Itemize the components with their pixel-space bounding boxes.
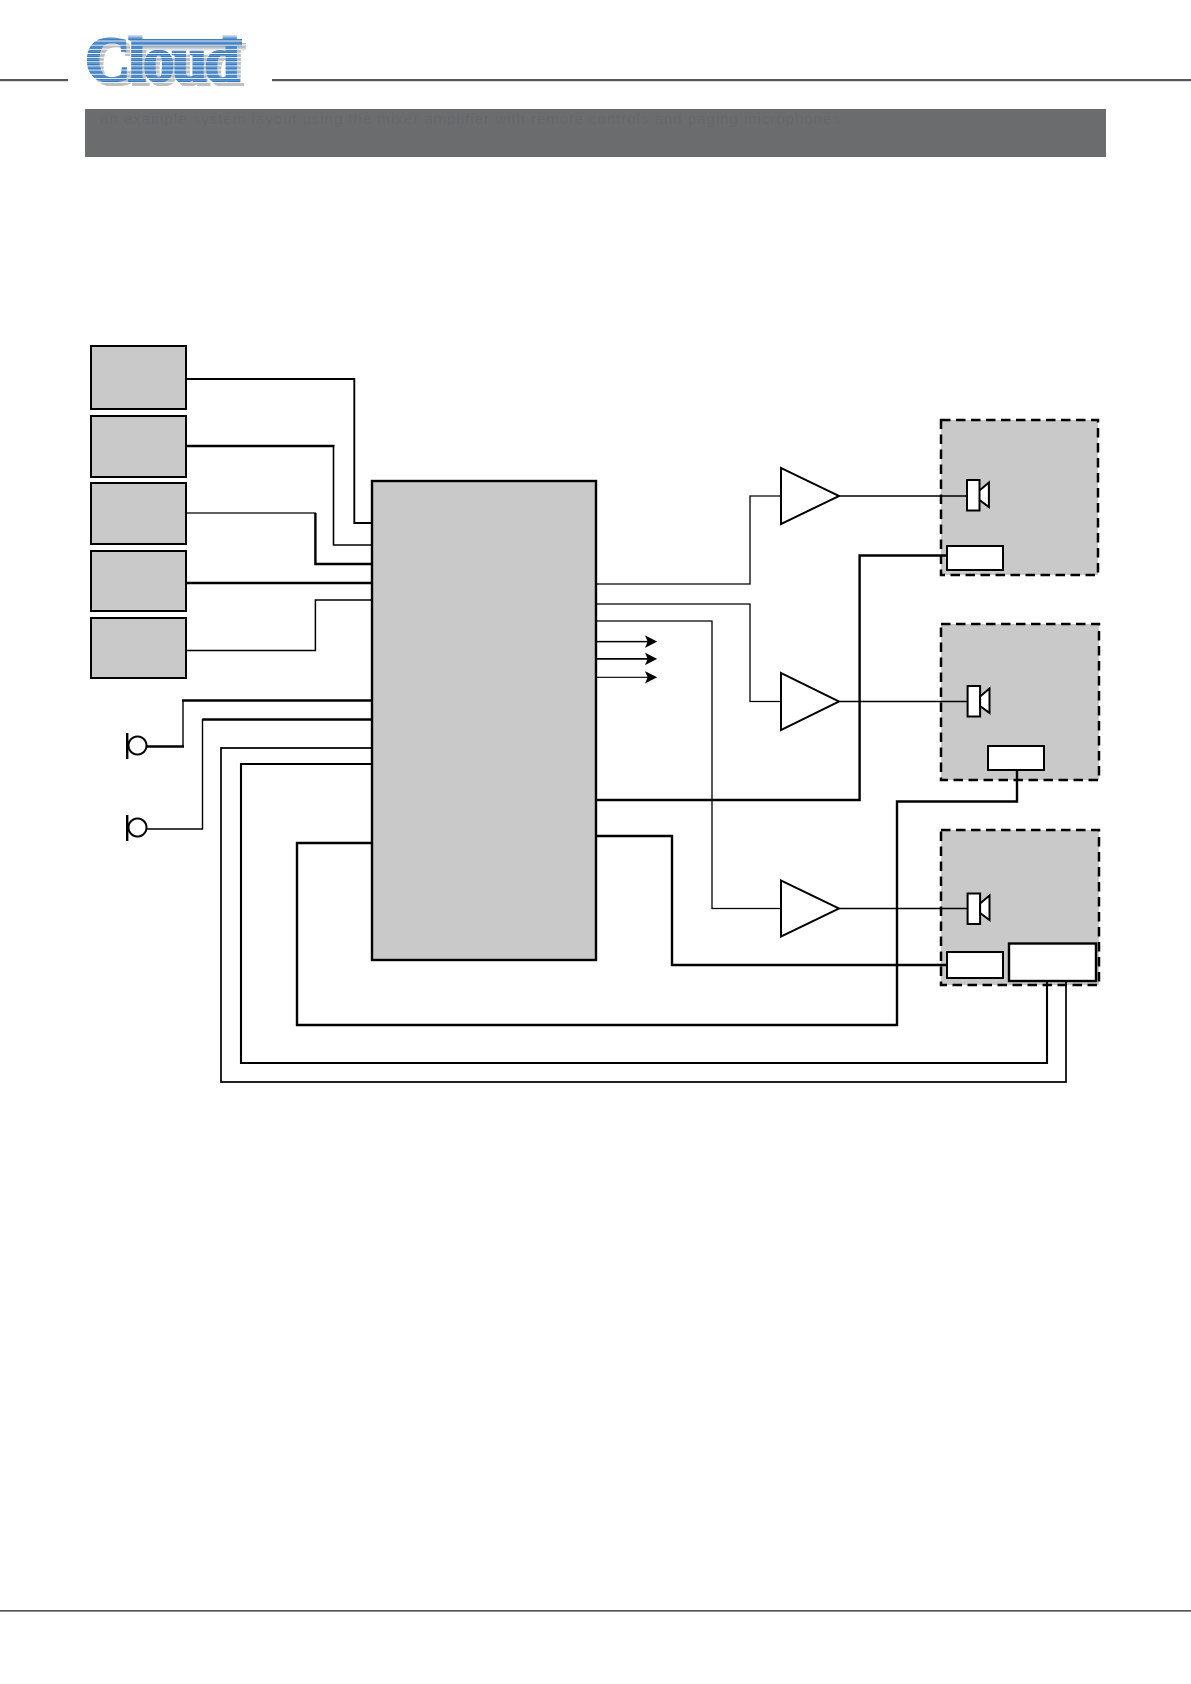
output wire to amplifier A3 bbox=[596, 621, 781, 909]
music output arrow 2 bbox=[596, 654, 656, 663]
volume control VC2 bbox=[988, 746, 1044, 770]
amplifier A2 bbox=[781, 673, 839, 730]
output wire to amplifier A2 bbox=[596, 604, 781, 702]
wire amplifier A3 to speaker LS3 bbox=[839, 908, 968, 910]
wire from MIC2 bbox=[147, 720, 373, 830]
volume control VC3 bbox=[947, 952, 1003, 978]
music output arrow 1 bbox=[596, 637, 656, 646]
wire amplifier A2 to speaker LS2 bbox=[839, 701, 968, 703]
volume control VC1 bbox=[947, 546, 1003, 570]
microphone MIC1 bbox=[126, 733, 147, 759]
microphone MIC2 bbox=[126, 815, 147, 841]
input source box 3 bbox=[91, 483, 186, 544]
zone 3 volume control feed bbox=[596, 836, 947, 965]
wire from source 2 bbox=[186, 445, 335, 448]
speaker LS2 bbox=[968, 686, 990, 717]
wire from source 1 bbox=[186, 379, 372, 523]
header rule right bbox=[272, 79, 1191, 81]
paging / music panel VC4 bbox=[1009, 944, 1096, 982]
svg-text:Cloud: Cloud bbox=[85, 25, 240, 95]
amplifier A1 bbox=[781, 468, 839, 524]
speaker LS3 bbox=[968, 894, 990, 925]
title bar bbox=[85, 109, 1106, 157]
wire from source 3 bbox=[186, 512, 316, 514]
remote volume loop for zone 2 (wire C) bbox=[297, 770, 1017, 1025]
mixer-amplifier main unit bbox=[372, 481, 596, 960]
input source box 2 bbox=[91, 416, 186, 477]
wire from MIC1 bbox=[147, 745, 185, 747]
zone 2 enclosure bbox=[941, 624, 1099, 780]
zone 1 enclosure bbox=[941, 420, 1098, 575]
svg-text:an example system layout using: an example system layout using the mixer… bbox=[100, 111, 841, 128]
wire from source 5 bbox=[186, 600, 372, 651]
footer rule bbox=[0, 1610, 1191, 1612]
header rule left bbox=[0, 79, 68, 81]
output wire to amplifier A1 bbox=[596, 496, 781, 584]
input source box 1 bbox=[91, 346, 186, 409]
input source box 5 bbox=[91, 618, 186, 678]
zone 1 volume control feed bbox=[596, 556, 947, 801]
wire amplifier A1 to speaker LS1 bbox=[839, 495, 967, 497]
music output arrow 3 bbox=[596, 673, 656, 682]
remote volume loop for zone 3 big panel (wire A) bbox=[241, 764, 1047, 1063]
zone 3 enclosure bbox=[941, 830, 1099, 985]
amplifier A3 bbox=[781, 881, 839, 937]
Cloud logo bbox=[85, 25, 246, 99]
speaker LS1 bbox=[967, 480, 989, 511]
input source box 4 bbox=[91, 551, 186, 611]
remote volume loop for zone 3 big panel (wire B) bbox=[221, 748, 1066, 1082]
wire MIC2 trunk into mixer bbox=[203, 718, 373, 720]
wire from source 4 bbox=[186, 582, 372, 584]
